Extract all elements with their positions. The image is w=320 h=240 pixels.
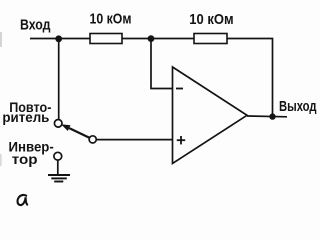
switch pivot circle bbox=[89, 136, 96, 143]
svg-text:10 кОм: 10 кОм bbox=[90, 11, 132, 28]
scan smudge left edge upper bbox=[0, 32, 2, 47]
inverter contact circle bbox=[54, 152, 62, 160]
output wire bbox=[247, 115, 287, 118]
svg-text:10 кОм: 10 кОм bbox=[189, 11, 233, 28]
svg-text:ритель: ритель bbox=[2, 110, 49, 125]
scan smudge left edge lower bbox=[0, 154, 2, 166]
wire node A down to follower contact bbox=[58, 39, 60, 120]
wire inverter contact to ground bbox=[57, 160, 59, 175]
switch arm wire bbox=[69, 128, 89, 138]
node B junction bbox=[148, 35, 155, 42]
wire R1 to R2 bbox=[122, 38, 194, 40]
resistor R2 bbox=[194, 34, 227, 44]
svg-text:тор: тор bbox=[12, 152, 38, 167]
wire pivot to non-inverting input bbox=[96, 139, 172, 141]
node A junction bbox=[55, 35, 62, 42]
follower contact circle bbox=[54, 120, 62, 128]
op-amp U1 bbox=[173, 67, 248, 164]
svg-text:Выход: Выход bbox=[279, 98, 317, 115]
ground bbox=[48, 175, 70, 182]
output junction bbox=[269, 113, 275, 119]
wire R2 to output node bbox=[227, 39, 273, 117]
wire input to resistor R1 bbox=[30, 38, 90, 40]
figure label а (italic alpha) bbox=[18, 195, 28, 205]
minus sign bbox=[176, 88, 183, 90]
resistor R1 bbox=[90, 34, 122, 44]
plus sign bbox=[177, 136, 185, 144]
svg-text:Вход: Вход bbox=[20, 17, 51, 34]
switch arrowhead bbox=[61, 124, 71, 131]
wire node B to inverting input bbox=[151, 39, 173, 89]
